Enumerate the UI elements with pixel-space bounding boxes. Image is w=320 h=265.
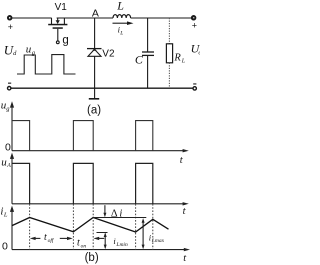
dashed guide x=29.6 [29, 204, 31, 250]
svg-text:A: A [92, 7, 99, 19]
svg-text:t: t [77, 238, 80, 249]
svg-text:0: 0 [5, 142, 11, 154]
pulses ug [12, 121, 153, 151]
axis iL [10, 206, 190, 252]
terminal - bottom-left [8, 87, 11, 90]
terminal + top-right [192, 16, 196, 20]
capacitor C [142, 18, 154, 88]
peak level line [93, 217, 146, 219]
diode V2 [87, 18, 102, 88]
dashed guide x=93.2 [92, 204, 94, 250]
iLmax measure arrow [142, 218, 145, 249]
wire top rail left segment [11, 17, 51, 19]
svg-text:g: g [6, 106, 10, 113]
wire top rail middle [57, 17, 113, 19]
gate waveform sketch [17, 55, 76, 74]
t-off arrows [30, 237, 73, 240]
svg-text:0: 0 [2, 240, 8, 252]
svg-text:g: g [62, 35, 68, 47]
svg-text:+: + [192, 20, 197, 30]
svg-text:+: + [8, 22, 13, 32]
svg-text:on: on [81, 243, 87, 249]
svg-text:(b): (b) [85, 252, 99, 264]
wire top rail right [131, 17, 194, 19]
svg-text:A: A [6, 163, 11, 169]
current arrow iL [113, 21, 134, 25]
iLmin measure arrow [104, 232, 107, 249]
t-on pointers [93, 237, 104, 240]
resistor RL [166, 18, 172, 88]
svg-text:t: t [180, 155, 184, 166]
svg-text:V2: V2 [102, 48, 115, 59]
svg-text:L: L [181, 59, 186, 65]
label - left [8, 83, 11, 84]
svg-text:(a): (a) [87, 104, 101, 116]
svg-text:i: i [119, 208, 122, 219]
svg-text:Lmax: Lmax [151, 238, 165, 244]
dashed guide x=73.4 [72, 204, 74, 250]
inductor L [113, 15, 131, 18]
axis uA [10, 153, 189, 206]
dashed guide x=152.8 [152, 204, 154, 250]
axis ug: vertical [10, 101, 189, 152]
bottom wire [11, 87, 193, 89]
transistor V1 [48, 18, 67, 44]
ground [89, 88, 99, 99]
terminal + top-left [8, 16, 12, 20]
trough level line [97, 232, 108, 234]
svg-text:t: t [183, 253, 187, 264]
svg-text:off: off [48, 237, 55, 244]
svg-text:L: L [3, 211, 8, 218]
svg-text:R: R [173, 53, 181, 64]
svg-text:t: t [183, 206, 187, 217]
dashed guide x=135.6 [135, 204, 137, 250]
iL waveform [12, 218, 169, 233]
svg-text:t: t [44, 232, 47, 243]
svg-text:Δ: Δ [111, 208, 118, 219]
svg-text:L: L [119, 30, 123, 36]
svg-text:V1: V1 [55, 2, 68, 13]
delta-i pointer [103, 205, 106, 217]
svg-text:L: L [116, 0, 124, 12]
svg-text:d: d [13, 50, 17, 57]
pulses uA [12, 163, 153, 203]
svg-text:Lmin: Lmin [115, 242, 128, 248]
svg-text:C: C [135, 52, 144, 66]
terminal - bottom-right [193, 87, 196, 90]
svg-text:o: o [198, 49, 200, 56]
label - right [193, 83, 196, 84]
